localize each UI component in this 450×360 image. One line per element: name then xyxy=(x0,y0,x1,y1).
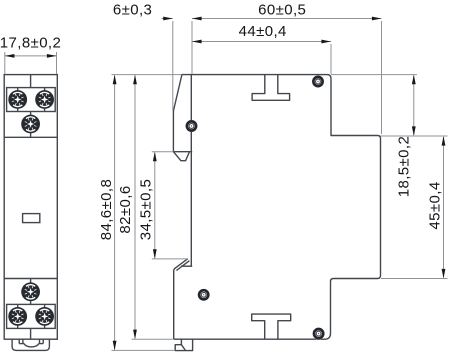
tick marks bottom single screw xyxy=(30,279,32,284)
top terminal box xyxy=(7,88,56,112)
ext bottom 82 xyxy=(132,338,173,340)
arrows 17.8 xyxy=(5,54,15,58)
dim line 34.5 xyxy=(154,153,156,258)
ext line back xyxy=(381,21,383,134)
ext line front face xyxy=(172,21,174,110)
tick marks bottom screws xyxy=(17,304,19,308)
screw A5 front bottom-left xyxy=(8,307,27,326)
dim line 84.6 xyxy=(114,76,116,350)
ext 34.5 top xyxy=(152,151,174,153)
tick marks top single screw xyxy=(30,112,32,116)
ext top edge right xyxy=(331,74,417,76)
ext step2 right xyxy=(381,278,448,280)
arrows 82 xyxy=(133,75,137,85)
body front edge line xyxy=(190,75,192,267)
arrow 6 left (outside, pointing right) xyxy=(163,17,173,21)
ext 34.5 bottom xyxy=(152,258,188,260)
svg-text:84,6±0,8: 84,6±0,8 xyxy=(98,179,115,240)
top cover divider xyxy=(30,75,32,88)
screw A6 front bottom-right xyxy=(35,307,54,326)
bottom terminal hook xyxy=(174,259,188,340)
rivet R2 top-right xyxy=(312,76,324,88)
front view body outline xyxy=(4,75,57,340)
DIN clip tab front view xyxy=(12,339,49,350)
svg-text:17,8±0,2: 17,8±0,2 xyxy=(0,35,61,52)
svg-text:44±0,4: 44±0,4 xyxy=(239,23,287,40)
ext top-left xyxy=(112,74,182,76)
screw A4 front bottom-center xyxy=(21,282,40,301)
dim line 6 (left stub) xyxy=(162,18,173,20)
arrows 45 xyxy=(442,136,446,146)
bottom clip tab side view xyxy=(175,339,192,350)
svg-text:82±0,6: 82±0,6 xyxy=(117,185,134,233)
ext line 44 right xyxy=(330,44,332,74)
top T slot xyxy=(252,75,290,101)
rivet R4 bottom-right xyxy=(313,328,325,340)
screw A3 front top-center xyxy=(21,115,40,134)
bottom band line xyxy=(4,278,57,280)
dim line 17.8 xyxy=(5,55,57,57)
clip chamfer xyxy=(181,345,185,351)
dim line 60 xyxy=(192,18,382,20)
top terminal notch xyxy=(173,152,189,161)
arrow 6 right / 60 left (outside, pointing left) xyxy=(192,17,202,21)
clip center arc xyxy=(24,344,38,347)
ext line body front xyxy=(191,21,193,74)
top band line xyxy=(4,136,57,138)
dim line 44 xyxy=(192,41,331,43)
recess top line xyxy=(173,151,192,153)
arrow 44 right xyxy=(321,40,331,44)
side view main outline xyxy=(173,75,380,340)
ext bottom 84.6 xyxy=(112,349,176,351)
front plate upper edge xyxy=(172,110,174,152)
dim line 82 xyxy=(134,76,136,339)
arrows 34.5 xyxy=(153,152,157,162)
tick marks top screws xyxy=(17,88,19,92)
bottom cover divider xyxy=(30,328,32,339)
arrow 44 left xyxy=(192,40,202,44)
bottom T slot xyxy=(252,314,291,339)
svg-text:60±0,5: 60±0,5 xyxy=(258,2,306,19)
svg-text:18,5±0,2: 18,5±0,2 xyxy=(396,136,413,197)
screw A2 front top-right xyxy=(35,90,54,109)
arrows 18.5 xyxy=(412,75,416,85)
svg-text:34,5±0,5: 34,5±0,5 xyxy=(137,179,154,240)
svg-text:6±0,3: 6±0,3 xyxy=(113,2,152,19)
dim line 45 xyxy=(443,137,445,278)
dim line 18.5 xyxy=(413,76,415,136)
arrow 60 right xyxy=(372,17,382,21)
clip inner slots xyxy=(18,339,20,343)
bottom terminal box xyxy=(7,304,56,328)
ext lines 17.8 xyxy=(4,52,6,74)
label window xyxy=(23,214,40,223)
rivet R1 upper-left xyxy=(186,120,198,132)
svg-text:45±0,4: 45±0,4 xyxy=(426,181,443,229)
screw A1 front top-left xyxy=(8,90,27,109)
dimension texts xyxy=(0,2,443,241)
arrows 84.6 xyxy=(113,75,117,85)
rivet R3 lower-left xyxy=(198,289,210,301)
ext step right xyxy=(381,135,448,137)
